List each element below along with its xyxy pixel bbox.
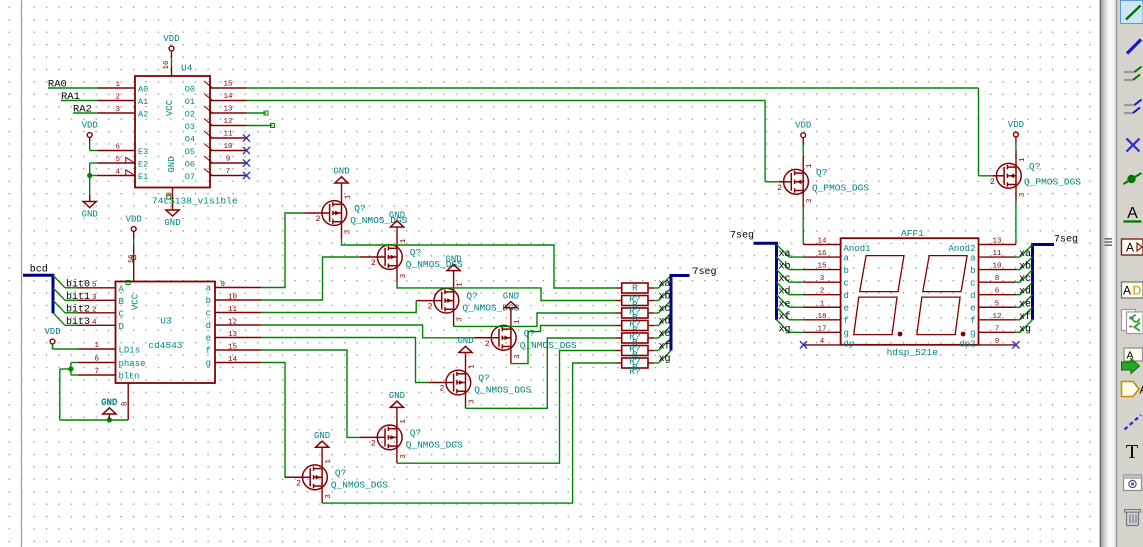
svg-text:O7: O7 — [185, 172, 195, 182]
bus bcd — [23, 275, 53, 313]
ground GND below E1 — [82, 195, 98, 220]
wire bit0 — [65, 287, 77, 289]
bus entry xc right display — [1020, 270, 1033, 283]
svg-text:4: 4 — [92, 319, 97, 327]
svg-text:R?: R? — [629, 366, 640, 377]
no-connect at U4 pin 7 — [243, 172, 250, 179]
U3 pin 13 e — [206, 331, 261, 344]
svg-text:GND: GND — [82, 210, 98, 220]
no-connect display dp left — [800, 341, 807, 348]
bus entry xa right display — [1020, 245, 1033, 258]
bus entry xg right display — [1020, 320, 1033, 333]
bus entry xe left display — [777, 295, 790, 308]
wire Q6 source to R6 — [397, 351, 616, 464]
transistor Q5 Q_NMOS_DGS — [428, 353, 531, 409]
net label xa left display — [779, 249, 791, 260]
wire VDD to E3 — [90, 142, 98, 151]
svg-text:ŧn: ŧn — [129, 372, 140, 382]
svg-text:2: 2 — [115, 94, 120, 102]
wire VDD to LDis — [53, 345, 79, 350]
wire O1 to PMOS Q8 gate — [247, 101, 780, 182]
svg-text:e: e — [844, 303, 849, 313]
svg-text:c: c — [970, 278, 975, 288]
svg-text:U3: U3 — [160, 315, 172, 326]
bus entry xf left display — [777, 307, 790, 320]
svg-text:7: 7 — [94, 368, 99, 376]
toolbar button net label — [1124, 205, 1142, 222]
toolbar button import sheet pin — [1122, 310, 1143, 334]
svg-text:xe: xe — [1019, 299, 1031, 310]
resistor R4 — [616, 319, 655, 336]
svg-text:1: 1 — [94, 342, 99, 350]
toolbar button place bus — [1127, 40, 1141, 54]
svg-text:xe: xe — [779, 299, 791, 310]
U4 reference U4 — [181, 63, 193, 74]
junction at E1 — [87, 173, 92, 178]
net label xb — [658, 291, 670, 303]
transistor Q1 Q_NMOS_DGS — [304, 183, 407, 239]
svg-text:xd: xd — [658, 316, 670, 328]
svg-text:7seg: 7seg — [693, 267, 717, 278]
svg-text:1: 1 — [400, 419, 408, 424]
bus 7seg at resistors — [671, 276, 690, 351]
svg-text:Q_NMOS_DGS: Q_NMOS_DGS — [406, 439, 463, 450]
svg-text:bit2: bit2 — [66, 303, 90, 315]
svg-text:A: A — [1127, 205, 1138, 222]
net label xd left display — [779, 286, 791, 298]
bus label 7seg left of display — [730, 231, 754, 242]
dangling wire end at U3 pin16 — [132, 256, 136, 260]
wire RA1 to U4 — [61, 100, 98, 102]
U4 pin 2 A1 — [98, 94, 149, 107]
svg-text:AFF1: AFF1 — [901, 228, 924, 239]
svg-text:xe: xe — [658, 329, 670, 340]
svg-text:4: 4 — [115, 169, 120, 177]
svg-text:A: A — [1126, 241, 1134, 255]
svg-text:10: 10 — [992, 263, 1002, 271]
svg-text:13: 13 — [992, 238, 1002, 246]
bus entry xg left display — [777, 320, 790, 333]
bus entry xd left display — [777, 282, 790, 295]
wire R1 to bus entry — [654, 287, 658, 289]
toolbar button graphic line — [1125, 415, 1142, 430]
net label xe left display — [779, 299, 791, 310]
svg-text:a: a — [970, 253, 976, 263]
wire xe right display — [1016, 306, 1020, 308]
wire net d to Q4 gate — [261, 325, 474, 338]
svg-text:xg: xg — [658, 354, 670, 365]
net label xg left display — [779, 324, 791, 335]
svg-text:U4: U4 — [181, 63, 193, 74]
U4 pin 7 O7 — [185, 168, 247, 182]
svg-text:Q?: Q? — [478, 373, 489, 384]
bus entry xf — [659, 338, 672, 351]
U3 pin 12 d — [206, 319, 261, 332]
svg-text:5: 5 — [995, 300, 1000, 308]
sash grip — [1105, 239, 1113, 245]
svg-text:1: 1 — [469, 364, 477, 369]
wire net g to Q7 gate — [261, 363, 285, 478]
wire net f to Q6 gate — [261, 350, 360, 437]
dangling wire end O3 — [271, 124, 275, 128]
net label xa — [658, 279, 670, 290]
transistor Q2 Q_NMOS_DGS — [360, 227, 463, 283]
net label xg — [658, 354, 670, 365]
net label xa right display — [1019, 249, 1031, 260]
bus entry xb — [659, 288, 672, 301]
svg-text:3: 3 — [400, 454, 408, 459]
power VDD at U4 E3 — [82, 121, 98, 142]
toolbar button wire-to-bus entry — [1124, 67, 1142, 81]
net label xb left display — [779, 261, 791, 273]
svg-text:12: 12 — [228, 319, 237, 327]
svg-text:VDD: VDD — [82, 121, 98, 131]
resistor R7 — [616, 356, 655, 373]
bus entry xd — [659, 313, 672, 326]
ground GND below U4 — [164, 200, 180, 229]
bus entry xe — [659, 326, 672, 339]
display pin 15 b — [804, 263, 849, 276]
toolbar button hierarchical label — [1122, 282, 1143, 298]
svg-text:5: 5 — [92, 281, 97, 289]
no-connect at U4 pin 9 — [243, 159, 250, 166]
display pin 12 f — [970, 313, 1016, 326]
svg-text:D: D — [119, 322, 124, 332]
wire bit3 — [65, 324, 77, 326]
wire R5 to bus entry — [654, 337, 658, 339]
dangling wire end at U4 pin8 — [167, 195, 171, 199]
wire net b to Q2 gate — [261, 257, 360, 300]
svg-text:1: 1 — [345, 194, 353, 199]
wire xc left display — [789, 281, 804, 283]
U4 pin 14 O1 — [185, 93, 247, 107]
bus entry bit3 — [53, 313, 65, 326]
junction phase-bl — [68, 366, 73, 371]
U4 pin 9 O6 — [185, 156, 247, 170]
net label xe right display — [1019, 299, 1031, 310]
svg-text:1: 1 — [1019, 157, 1027, 162]
svg-text:Q?: Q? — [1029, 161, 1040, 172]
svg-text:9: 9 — [226, 156, 231, 164]
svg-text:xc: xc — [779, 274, 791, 285]
net label RA2 — [73, 104, 92, 116]
svg-text:GND: GND — [164, 218, 180, 228]
U3 pin 11 c — [206, 306, 261, 319]
resistor R1 — [616, 283, 655, 294]
display pin 18 f — [804, 313, 849, 326]
svg-text:GND: GND — [389, 391, 405, 401]
svg-text:5: 5 — [115, 156, 120, 164]
svg-text:GND: GND — [389, 211, 405, 221]
wire O2 stub — [247, 112, 267, 114]
svg-text:2: 2 — [92, 306, 97, 314]
svg-text:2: 2 — [296, 479, 301, 488]
wire Q3 source to R3 — [453, 325, 455, 327]
wire xa right display — [1016, 256, 1020, 258]
svg-text:11: 11 — [223, 131, 233, 139]
bus 7seg right of display — [1033, 245, 1055, 320]
wire R2 to bus entry — [654, 300, 658, 302]
svg-text:d: d — [970, 291, 975, 301]
svg-text:1: 1 — [457, 282, 465, 287]
resistor R3 — [616, 306, 655, 323]
ground GND above Q1 — [333, 167, 349, 183]
svg-text:Q?: Q? — [335, 467, 346, 478]
U4 pin 10 O5 — [185, 143, 247, 157]
svg-text:LDis: LDis — [119, 346, 141, 356]
svg-text:e: e — [206, 334, 211, 344]
U4 pin 3 A2 — [98, 106, 149, 119]
bus entry xc left display — [777, 270, 790, 283]
transistor Q9 Q_PMOS_DGS — [990, 150, 1081, 202]
net label xd — [658, 316, 670, 328]
wire VDD to U4 pin16 — [171, 57, 173, 66]
transistor Q6 Q_NMOS_DGS — [360, 407, 463, 463]
wire xe left display — [789, 306, 804, 308]
svg-text:A: A — [119, 284, 125, 294]
display pin 9 dp2 — [959, 338, 1016, 350]
toolbar button hierarchical pin — [1122, 382, 1143, 397]
net label bit3 — [66, 316, 90, 328]
U3 pin 2 C — [77, 306, 124, 319]
net label bit1 — [66, 291, 90, 303]
wire Q1 source to R1 — [342, 239, 616, 288]
svg-text:16: 16 — [817, 250, 827, 258]
toolbar button place wire (selected) — [1121, 1, 1143, 24]
wire xd left display — [789, 294, 804, 296]
toolbar button import hierarchical label — [1122, 348, 1143, 374]
svg-text:A2: A2 — [138, 109, 148, 119]
svg-text:15: 15 — [228, 344, 238, 352]
bus label 7seg right of display — [1054, 235, 1078, 246]
svg-text:dp: dp — [844, 339, 855, 349]
svg-text:7: 7 — [226, 168, 231, 176]
svg-text:GND: GND — [167, 156, 177, 172]
svg-text:VDD: VDD — [44, 327, 60, 337]
wire Q9 source to display Anod2 — [1015, 202, 1017, 245]
digit 2 segments — [917, 256, 967, 335]
U3 pin 10 b — [206, 294, 261, 307]
svg-text:hdsp_521e: hdsp_521e — [887, 347, 939, 358]
no-connect display dp right — [1012, 341, 1019, 348]
svg-text:A1: A1 — [138, 97, 148, 107]
display pin 8 c — [970, 275, 1016, 288]
svg-text:O3: O3 — [185, 122, 195, 132]
svg-text:xd: xd — [1019, 286, 1031, 298]
wire net c to Q3 gate — [261, 301, 416, 313]
net label xd right display — [1019, 286, 1031, 298]
digit 1 segments — [854, 256, 904, 335]
display pin 17 g — [804, 325, 849, 338]
net label xc left display — [779, 274, 791, 285]
svg-text:xb: xb — [1019, 261, 1031, 273]
bus entry bit0 — [53, 275, 65, 288]
toolbar button delete — [1125, 510, 1141, 526]
svg-text:xg: xg — [1019, 324, 1031, 335]
bus entry bit2 — [53, 300, 65, 313]
wire xb left display — [789, 269, 804, 271]
svg-text:d: d — [206, 321, 211, 331]
svg-text:6: 6 — [94, 356, 99, 364]
net label xf right display — [1019, 311, 1031, 323]
U4 pin 15 O0 — [185, 81, 247, 95]
svg-text:13: 13 — [223, 106, 233, 114]
svg-text:3: 3 — [1019, 192, 1027, 197]
wire VDD to Q8 drain — [802, 144, 804, 157]
svg-text:VDD: VDD — [795, 121, 811, 131]
net label xg right display — [1019, 324, 1031, 335]
U4 pin 5 E2 — [98, 156, 149, 169]
U3 reference U3 — [160, 315, 172, 326]
svg-text:a: a — [844, 253, 850, 263]
net label xc right display — [1019, 274, 1031, 285]
display pin 11 a — [970, 250, 1016, 263]
wire xd right display — [1016, 294, 1020, 296]
svg-text:3: 3 — [400, 273, 408, 278]
svg-text:VCC: VCC — [165, 99, 175, 116]
net label xe — [658, 329, 670, 340]
svg-text:GND: GND — [333, 167, 349, 177]
svg-text:2: 2 — [428, 303, 433, 312]
svg-text:Q_NMOS_DGS: Q_NMOS_DGS — [474, 385, 531, 396]
svg-text:GND: GND — [101, 398, 117, 408]
svg-text:16: 16 — [163, 60, 171, 70]
wire Q5 source to R5 — [466, 338, 616, 408]
svg-text:1: 1 — [400, 238, 408, 243]
svg-text:GND: GND — [314, 431, 330, 441]
wire bit2 — [65, 312, 77, 314]
transistor Q3 Q_NMOS_DGS — [416, 271, 519, 327]
display pin 13 Anod2 — [948, 238, 1015, 255]
svg-text:A: A — [1123, 284, 1131, 298]
U4 pin 11 O4 — [185, 131, 247, 145]
svg-text:GND: GND — [445, 254, 461, 264]
ground GND above Q5 — [457, 336, 473, 352]
svg-text:7seg: 7seg — [1054, 235, 1078, 246]
U3 pin 14 g — [206, 356, 261, 369]
svg-text:Q?: Q? — [410, 427, 421, 438]
svg-text:phase: phase — [119, 359, 146, 369]
wire net a to Q1 gate — [261, 213, 304, 288]
U3 pin 7 bl — [79, 368, 140, 382]
U3 pin 3 B — [77, 294, 124, 307]
svg-text:xb: xb — [658, 291, 670, 303]
svg-text:xa: xa — [1019, 249, 1031, 260]
svg-text:O0: O0 — [185, 84, 195, 94]
svg-text:g: g — [970, 329, 975, 339]
display pin 7 g — [970, 325, 1016, 338]
resistor R7 reference R? — [629, 366, 640, 377]
svg-text:xc: xc — [1019, 274, 1031, 285]
toolbar button image — [1124, 475, 1142, 491]
svg-text:3: 3 — [345, 229, 353, 234]
svg-text:R: R — [632, 283, 638, 294]
display pin 16 a — [804, 250, 850, 263]
svg-text:xf: xf — [658, 341, 670, 353]
svg-text:O6: O6 — [185, 159, 195, 169]
svg-text:e: e — [970, 303, 975, 313]
U4 value 74LS138_visible — [152, 196, 238, 207]
svg-text:O4: O4 — [185, 134, 195, 144]
svg-text:Q_PMOS_DGS: Q_PMOS_DGS — [1024, 177, 1081, 188]
wire xb right display — [1016, 269, 1020, 271]
svg-text:bit0: bit0 — [66, 278, 90, 290]
svg-text:2: 2 — [315, 215, 320, 224]
svg-text:Q?: Q? — [466, 291, 477, 302]
no-connect at U4 pin 10 — [243, 147, 250, 154]
wire Q4 source to R4 — [511, 326, 616, 364]
dangling wire end O2 — [264, 111, 268, 115]
display pin 2 d — [804, 288, 849, 301]
svg-text:13: 13 — [228, 331, 238, 339]
bus label bcd — [30, 264, 48, 276]
svg-text:9: 9 — [220, 281, 225, 289]
display reference AFF1 — [901, 228, 924, 239]
bus entry xa — [659, 276, 672, 289]
svg-text:E2: E2 — [138, 159, 148, 169]
svg-text:bit1: bit1 — [66, 291, 90, 303]
display pin 3 c — [804, 275, 849, 288]
ground GND above Q7 — [314, 431, 330, 447]
svg-text:cd4543: cd4543 — [148, 340, 183, 351]
display pin 6 d — [970, 288, 1016, 301]
svg-text:xf: xf — [779, 311, 791, 323]
svg-text:b: b — [206, 296, 211, 306]
svg-text:11: 11 — [228, 306, 238, 314]
svg-text:dp2: dp2 — [959, 339, 975, 349]
svg-text:Q?: Q? — [524, 328, 535, 339]
svg-text:T: T — [1126, 441, 1138, 463]
U4 pin 6 E3 — [98, 144, 149, 157]
net label bit0 — [66, 278, 90, 290]
svg-text:E3: E3 — [138, 147, 148, 157]
svg-text:E1: E1 — [138, 172, 148, 182]
display value hdsp_521e — [887, 347, 939, 358]
U4 pin 12 O3 — [185, 118, 247, 132]
display pin 4 dp — [804, 338, 855, 350]
svg-text:a: a — [206, 284, 212, 294]
U3 pin 8 GND — [101, 383, 130, 420]
svg-text:14: 14 — [228, 356, 238, 364]
resistor R5 — [616, 331, 655, 348]
wire R4 to bus entry — [654, 325, 658, 327]
svg-text:g: g — [206, 359, 211, 369]
U4 pin 1 A0 — [98, 81, 149, 94]
power VDD above Q8 — [795, 121, 811, 144]
svg-text:7seg: 7seg — [730, 231, 754, 242]
no-connect at U4 pin 11 — [243, 134, 250, 141]
svg-text:f: f — [970, 316, 975, 326]
bus entry xd right display — [1020, 282, 1033, 295]
bus entry xb right display — [1020, 257, 1033, 270]
bus entry xg — [659, 351, 672, 364]
net label RA0 — [48, 79, 67, 91]
svg-text:18: 18 — [817, 313, 826, 321]
wire E2 E1 tie — [90, 163, 98, 195]
svg-text:O5: O5 — [185, 147, 195, 157]
svg-text:B: B — [119, 297, 125, 307]
svg-text:8: 8 — [995, 275, 1000, 283]
bus entry xa left display — [777, 245, 790, 258]
svg-text:9: 9 — [995, 338, 1000, 346]
U3 value cd4543 — [148, 340, 183, 351]
svg-text:Q?: Q? — [410, 247, 421, 258]
svg-text:3: 3 — [457, 317, 465, 322]
svg-text:VDD: VDD — [1008, 120, 1024, 130]
wire RA2 to U4 — [73, 112, 98, 114]
svg-text:8: 8 — [122, 401, 130, 406]
svg-text:4: 4 — [820, 338, 825, 346]
